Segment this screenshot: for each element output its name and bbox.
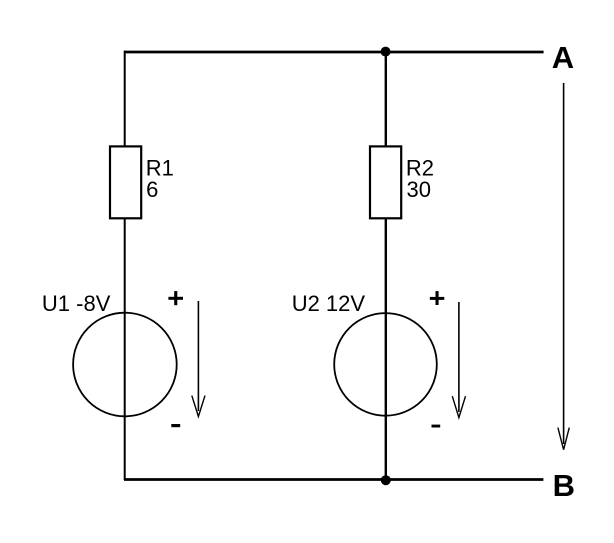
voltage arrow for U1 bbox=[192, 301, 205, 417]
svg-text:6: 6 bbox=[146, 177, 158, 202]
voltage source U1 (circle) bbox=[73, 313, 177, 417]
junction: top node dot bbox=[381, 47, 391, 57]
resistor R2 bbox=[370, 146, 401, 218]
wire: middle branch from top junction to resistor R2 bbox=[385, 52, 387, 146]
wire: left branch from top bus to resistor R1 bbox=[124, 51, 126, 146]
voltage arrow for U2 bbox=[452, 302, 465, 418]
wire: left branch from R1 through source U1 to bottom bus bbox=[124, 219, 126, 480]
svg-text:U2 12V: U2 12V bbox=[292, 291, 366, 316]
svg-text:30: 30 bbox=[407, 177, 431, 202]
polarity minus for U1 bbox=[171, 424, 180, 427]
voltage source U2 (circle) bbox=[334, 313, 437, 416]
arrow from node A to node B (voltage UAB) bbox=[558, 83, 569, 450]
junction: bottom node dot bbox=[381, 475, 391, 485]
polarity plus for U1 bbox=[168, 291, 183, 305]
svg-text:A: A bbox=[552, 40, 574, 75]
resistor R1 bbox=[110, 146, 141, 218]
svg-text:B: B bbox=[553, 468, 575, 503]
polarity plus for U2 bbox=[430, 291, 445, 305]
polarity minus for U2 bbox=[432, 425, 441, 428]
wire: top horizontal bus from left branch to node A bbox=[124, 51, 544, 54]
svg-text:U1 -8V: U1 -8V bbox=[42, 291, 111, 316]
wire: bottom horizontal bus from left branch to node B bbox=[124, 478, 543, 481]
wire: middle branch from R2 through source U2 to bottom junction bbox=[385, 219, 387, 480]
